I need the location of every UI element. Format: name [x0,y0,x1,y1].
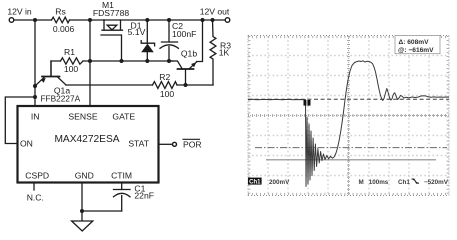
svg-text:@: −616mV: @: −616mV [398,47,434,54]
svg-text:12V in: 12V in [7,6,32,16]
node D1 bottom dot [145,59,149,63]
wire CSPD stub [33,183,35,191]
svg-text:SENSE: SENSE [68,112,97,122]
transistor Q1b [169,20,203,85]
svg-text:GATE: GATE [112,112,135,122]
resistor R3 [210,20,216,85]
node GND-C1 dot [80,209,84,213]
svg-text:R2: R2 [159,72,170,82]
node Q1b emitter top dot [201,18,205,22]
node Q1a emitter dot [33,84,37,88]
wire IN vertical [34,20,36,106]
resistor R1 [61,58,84,64]
svg-text:ON: ON [20,139,33,149]
node junction top-left [33,18,37,22]
capacitor C2 [160,20,178,61]
wire SENSE vertical [89,20,91,106]
ground [72,221,93,231]
node R1-SENSE dot [88,59,92,63]
op-amp U1 MAX4272ESA box [18,106,159,183]
svg-text:FDS7788: FDS7788 [93,8,130,18]
cursor 1 dashed line [248,98,449,100]
svg-text:Q1b: Q1b [181,49,197,59]
svg-text:STAT: STAT [128,138,149,148]
node C2 bottom dot [167,59,171,63]
label Ch1 badge [248,178,262,185]
svg-text:IN: IN [31,112,40,122]
svg-text:GND: GND [75,170,94,180]
svg-text:M: M [359,179,364,186]
svg-text:Δ: 608mV: Δ: 608mV [399,39,430,46]
diode D1 (zener 5.1V) [141,20,154,61]
svg-text:N.C.: N.C. [27,192,44,202]
svg-text:Rs: Rs [55,6,66,16]
svg-text:−520mV: −520mV [424,179,449,186]
wire R1 left lead [51,61,61,77]
wire top rail under M1 [104,19,227,21]
wire GND lead [81,183,83,222]
wire Rs to M1 [70,19,105,21]
svg-text:MAX4272ESA: MAX4272ESA [54,134,119,145]
node 12V in terminal [9,18,14,23]
node POR terminal [173,142,177,146]
node 12V out terminal [225,18,230,23]
node R3 top dot [211,18,215,22]
cursor 2 solid line [266,159,436,161]
svg-text:5.1V: 5.1V [128,27,146,37]
svg-text:0.006: 0.006 [53,24,75,34]
oscilloscope screenshot [248,36,449,196]
node Q1b base dot [184,83,188,87]
resistor Rs [52,17,70,23]
scope border dotted edges [248,36,449,196]
measurement readout box [395,36,440,54]
svg-text:100ms: 100ms [369,179,389,186]
transistor Q1a [35,61,66,86]
svg-text:200mV: 200mV [269,179,290,186]
wire R1 right lead / gate rail [83,60,173,62]
scope edge ticks [248,36,449,196]
scope grid vertical dotted lines [268,36,429,196]
wire base rail y85 [66,84,213,86]
svg-text:1K: 1K [219,48,230,58]
svg-text:CTIM: CTIM [111,170,132,180]
scope center axes with ticks [248,36,449,196]
node junction SENSE top [88,18,92,22]
waveform trace Ch1 [248,61,449,187]
svg-text:Ch1: Ch1 [398,179,410,186]
transistor M1 (p-MOSFET) [101,20,123,61]
svg-text:R1: R1 [64,47,75,57]
node D1 top dot [145,18,149,22]
node C2 top dot [167,18,171,22]
svg-text:100: 100 [64,64,79,74]
wire STAT to POR [159,143,173,145]
trigger point marker [304,100,311,106]
svg-text:POR: POR [183,140,202,150]
resistor R2 [153,82,178,89]
scope grid horizontal dotted lines [248,56,449,176]
svg-text:12V out: 12V out [200,6,230,16]
node gate rail / gate lead dot [120,59,124,63]
svg-text:CSPD: CSPD [25,170,49,180]
svg-text:22nF: 22nF [134,191,154,201]
trigger level dash-dot line [255,147,447,149]
svg-text:FFB2227A: FFB2227A [40,94,80,104]
wire C1 bottom to GND [82,210,122,212]
wire 12Vin to Rs [14,19,52,21]
wire ON branch [5,97,35,144]
node ON branch dot [33,95,37,99]
trigger slope symbol [412,179,420,183]
capacitor C1 [114,183,131,212]
svg-text:100: 100 [160,89,175,99]
svg-text:100nF: 100nF [172,29,196,39]
svg-text:Ch1: Ch1 [249,179,261,185]
